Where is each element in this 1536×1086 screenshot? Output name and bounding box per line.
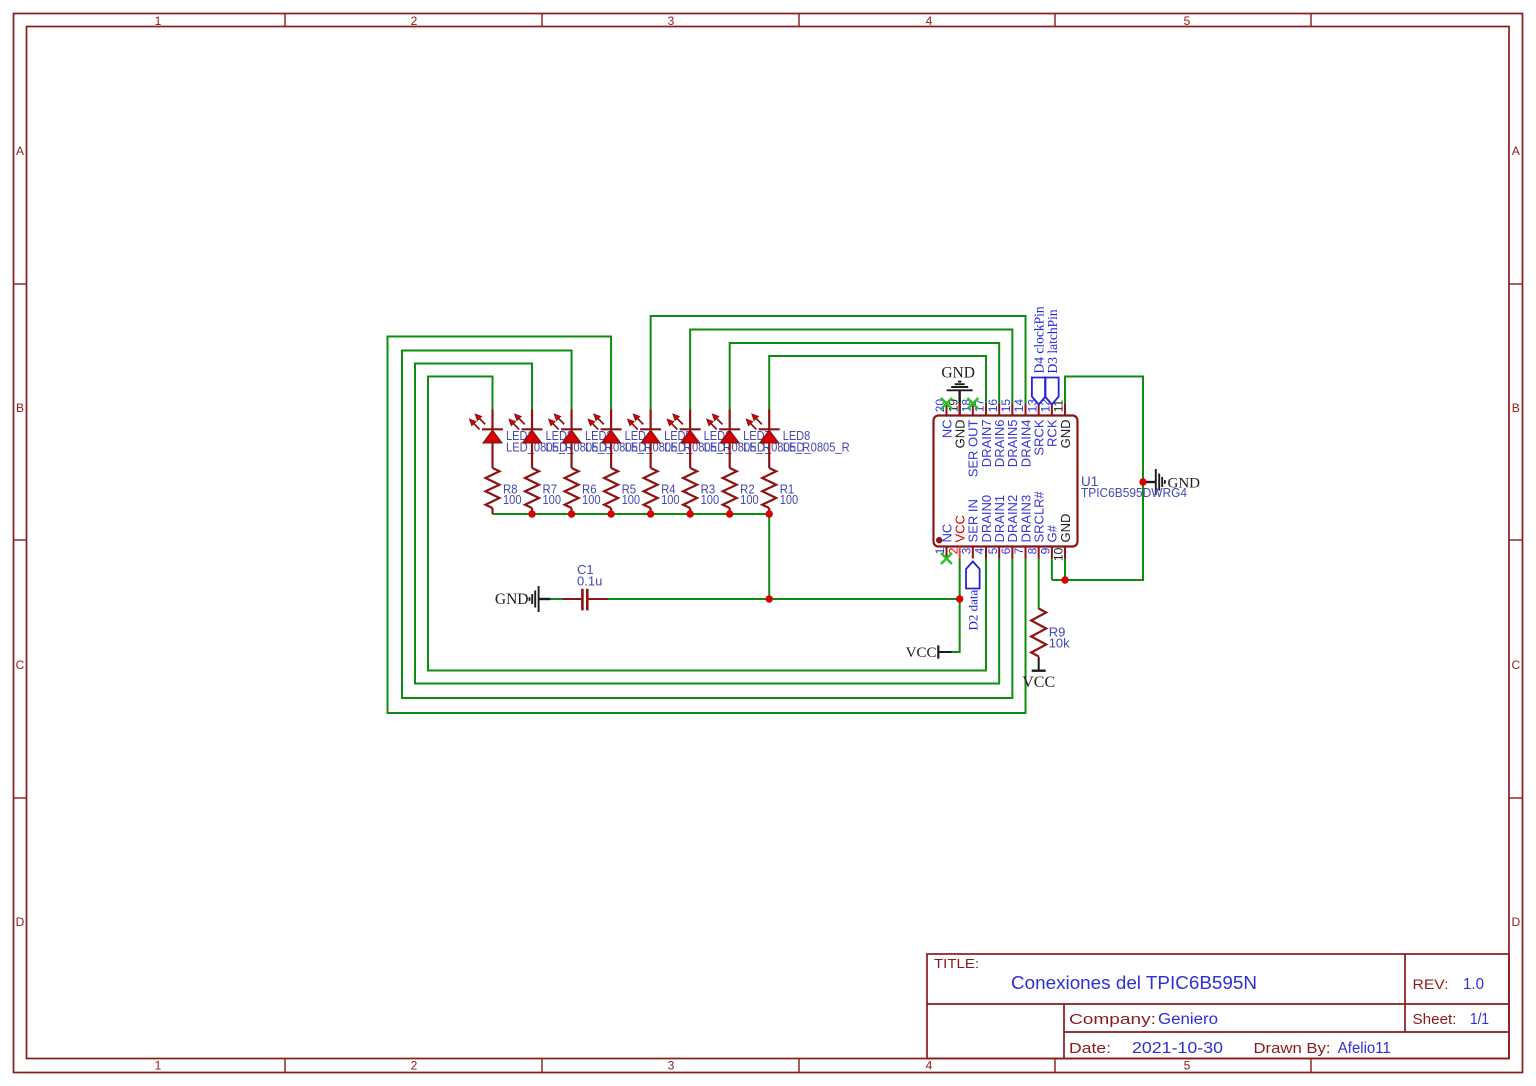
U1 pin 1 (NC) stub, number and name (946, 547, 948, 559)
svg-text:12: 12 (1039, 399, 1053, 413)
U1 pin 5 (DRAIN1) stub, number and name (998, 547, 1000, 559)
svg-text:7: 7 (1012, 547, 1026, 554)
U1 pin 6 (DRAIN2) stub, number and name (1011, 547, 1013, 559)
svg-text:D: D (1511, 915, 1520, 929)
junction R3/bus (686, 510, 693, 517)
U1 pin 8 (SRCLR#) stub, number and name (1038, 547, 1040, 559)
svg-text:15: 15 (999, 399, 1013, 413)
svg-text:3: 3 (668, 14, 675, 28)
title block frame (927, 954, 1509, 1059)
U1 pin 14 (DRAIN4) stub, number and name (1025, 404, 1027, 416)
svg-text:1.0: 1.0 (1463, 976, 1484, 993)
svg-text:100: 100 (661, 492, 680, 507)
LED D8 (LED8) (768, 410, 770, 431)
wire SRCLR# pin 8 to R9 (1038, 559, 1040, 610)
U1 pin 18 (SER OUT) stub, number and name (972, 404, 974, 416)
svg-text:REV:: REV: (1413, 976, 1449, 992)
global label D4 clockPin (pin 13) (1032, 378, 1046, 405)
svg-text:6: 6 (999, 547, 1013, 554)
resistor R2 (723, 468, 737, 508)
svg-text:C: C (1511, 658, 1520, 672)
svg-text:100: 100 (622, 492, 641, 507)
resistor R4 (644, 468, 658, 508)
LED D5 (LED5) (650, 410, 652, 431)
svg-text:A: A (1512, 144, 1520, 158)
U1 pin 7 (DRAIN3) stub, number and name (1025, 547, 1027, 559)
svg-text:100: 100 (740, 492, 759, 507)
svg-text:1: 1 (933, 547, 947, 554)
U1 pin-1 indicator dot (936, 537, 942, 543)
resistor R3 (683, 468, 697, 508)
no-connect flag on pin 18 (967, 398, 978, 409)
LED D2 (LED2) (531, 410, 533, 431)
svg-text:B: B (1512, 401, 1520, 415)
svg-text:100: 100 (780, 492, 799, 507)
LED D7 (LED7) (729, 410, 731, 431)
svg-text:5: 5 (986, 547, 1000, 554)
svg-text:TPIC6B595DWRG4: TPIC6B595DWRG4 (1081, 485, 1187, 500)
svg-text:2: 2 (946, 547, 960, 554)
svg-text:1: 1 (155, 1059, 162, 1073)
U1 pin 15 (DRAIN5) stub, number and name (1011, 404, 1013, 416)
U1 pin 3 (SER IN) stub, number and name (972, 547, 974, 559)
svg-text:B: B (16, 401, 24, 415)
svg-text:LED_0805_R: LED_0805_R (783, 440, 850, 455)
svg-text:Date:: Date: (1069, 1040, 1111, 1057)
svg-text:A: A (16, 144, 24, 158)
svg-text:0.1u: 0.1u (577, 574, 602, 589)
svg-text:4: 4 (926, 14, 933, 28)
resistor R7 (525, 468, 539, 508)
svg-text:10k: 10k (1049, 636, 1070, 651)
LED D1 (LED1) (491, 410, 493, 431)
resistor R8 (486, 468, 500, 508)
svg-text:3: 3 (668, 1059, 675, 1073)
svg-text:10: 10 (1052, 547, 1066, 561)
U1 pin 17 (DRAIN7) stub, number and name (985, 404, 987, 416)
svg-text:D2 data: D2 data (966, 589, 981, 630)
svg-text:2021-10-30: 2021-10-30 (1132, 1040, 1223, 1057)
no-connect flag on pin 20 (941, 398, 952, 409)
svg-text:100: 100 (582, 492, 601, 507)
svg-text:GND: GND (1058, 420, 1073, 449)
U1 pin 16 (DRAIN6) stub, number and name (998, 404, 1000, 416)
wire VCC pin 2 down to VCC symbol (952, 559, 960, 653)
power symbol GND (right of U1) (1143, 481, 1156, 483)
U1 pin 9 (G#) stub, number and name (1051, 547, 1053, 559)
power symbol GND (top, pin 19) (958, 391, 960, 417)
svg-text:D3 latchPin: D3 latchPin (1045, 309, 1060, 373)
resistor R1 (762, 468, 776, 508)
svg-text:2: 2 (411, 14, 418, 28)
wire GND rail bottom run (1052, 377, 1143, 581)
svg-text:Drawn By:: Drawn By: (1254, 1040, 1331, 1057)
resistor R9 (1031, 609, 1046, 657)
U1 pin 12 (RCK) stub, number and name (1051, 404, 1053, 416)
LED D4 (LED4) (610, 410, 612, 431)
wire LED1 cathode to DRAIN0 (pin 4) (428, 377, 986, 671)
wire LED6 cathode to DRAIN5 (pin 15) (690, 330, 1012, 411)
svg-text:Conexiones del TPIC6B595N: Conexiones del TPIC6B595N (1011, 972, 1257, 993)
junction R5/bus (607, 510, 614, 517)
resistor R5 (604, 468, 618, 508)
svg-text:GND: GND (495, 591, 529, 608)
wire G# pin 9 to GND rail (1051, 559, 1053, 581)
junction VCC pin 2 / C1 net (956, 595, 963, 602)
svg-text:2: 2 (411, 1059, 418, 1073)
junction GND pin 10 / rail (1061, 576, 1068, 583)
junction R7/bus (528, 510, 535, 517)
svg-text:1: 1 (155, 14, 162, 28)
junction C1 net / bus riser (766, 595, 773, 602)
wire LED2 cathode to DRAIN1 (pin 5) (415, 364, 999, 684)
wire LED8 cathode to DRAIN7 (pin 17) (769, 356, 986, 410)
svg-text:5: 5 (1184, 1059, 1191, 1073)
op-amp U1 body (TPIC6B595 shift register) (934, 416, 1078, 547)
svg-text:Afelio11: Afelio11 (1338, 1040, 1391, 1057)
wire LED4 cathode to DRAIN3 (pin 7) (388, 337, 1026, 714)
U1 pin 19 (GND) stub, number and name (959, 404, 961, 416)
U1 pin 4 (DRAIN0) stub, number and name (985, 547, 987, 559)
svg-text:C: C (16, 658, 25, 672)
svg-text:5: 5 (1184, 14, 1191, 28)
svg-text:3: 3 (960, 547, 974, 554)
U1 pin 2 (VCC) stub, number and name (959, 547, 961, 559)
column separator ticks (284, 14, 286, 27)
power symbol VCC (below R9) (1038, 658, 1040, 670)
svg-text:4: 4 (926, 1059, 933, 1073)
svg-text:VCC: VCC (1022, 674, 1055, 691)
svg-text:GND: GND (1058, 514, 1073, 543)
resistor R6 (565, 468, 579, 508)
U1 pin 10 (GND) stub, number and name (1064, 547, 1066, 559)
svg-text:Geniero: Geniero (1158, 1011, 1218, 1028)
svg-text:100: 100 (543, 492, 562, 507)
power symbol GND (left of C1) (539, 598, 551, 600)
svg-text:D: D (16, 915, 25, 929)
junction GND tap right (1139, 478, 1146, 485)
LED D6 (LED6) (689, 410, 691, 431)
capacitor C1 (563, 598, 581, 600)
wire LED5 cathode to DRAIN4 (pin 14) (651, 316, 1026, 410)
svg-text:100: 100 (503, 492, 522, 507)
U1 pin 20 (NC) stub, number and name (946, 404, 948, 416)
svg-text:16: 16 (986, 399, 1000, 413)
svg-text:TITLE:: TITLE: (934, 956, 979, 971)
svg-text:VCC: VCC (906, 645, 937, 661)
junction R1/bus (766, 510, 773, 517)
U1 pin 11 (GND) stub, number and name (1064, 404, 1066, 416)
wire LED3 cathode to DRAIN2 (pin 6) (402, 351, 1012, 699)
svg-text:GND: GND (941, 365, 975, 382)
U1 pin 13 (SRCK) stub, number and name (1038, 404, 1040, 416)
wire LED7 cathode to DRAIN6 (pin 16) (730, 343, 1000, 410)
junction R2/bus (726, 510, 733, 517)
svg-text:13: 13 (1025, 399, 1039, 413)
svg-text:9: 9 (1039, 547, 1053, 554)
global label D3 latchPin (pin 12) (1045, 378, 1059, 405)
svg-text:Company:: Company: (1069, 1011, 1156, 1028)
LED D3 (LED3) (570, 410, 572, 431)
junction R6/bus (568, 510, 575, 517)
svg-text:1/1: 1/1 (1470, 1011, 1489, 1028)
wire VCC bus under resistors (493, 514, 770, 599)
row separator ticks (14, 283, 27, 285)
svg-text:8: 8 (1025, 547, 1039, 554)
svg-text:100: 100 (701, 492, 720, 507)
wire C1 right lead to VCC pin junction (608, 598, 960, 600)
svg-text:Sheet:: Sheet: (1413, 1012, 1457, 1028)
wire GND pin 10 to GND rail (1064, 559, 1066, 581)
svg-text:14: 14 (1012, 399, 1026, 413)
wire GND stub to C1 left lead (551, 598, 564, 600)
no-connect flag on pin 1 (941, 553, 952, 564)
junction R4/bus (647, 510, 654, 517)
svg-text:4: 4 (973, 547, 987, 554)
power symbol VCC (left, pin 2 net) (938, 651, 951, 653)
global label D2 data (pin 3) (966, 562, 980, 589)
